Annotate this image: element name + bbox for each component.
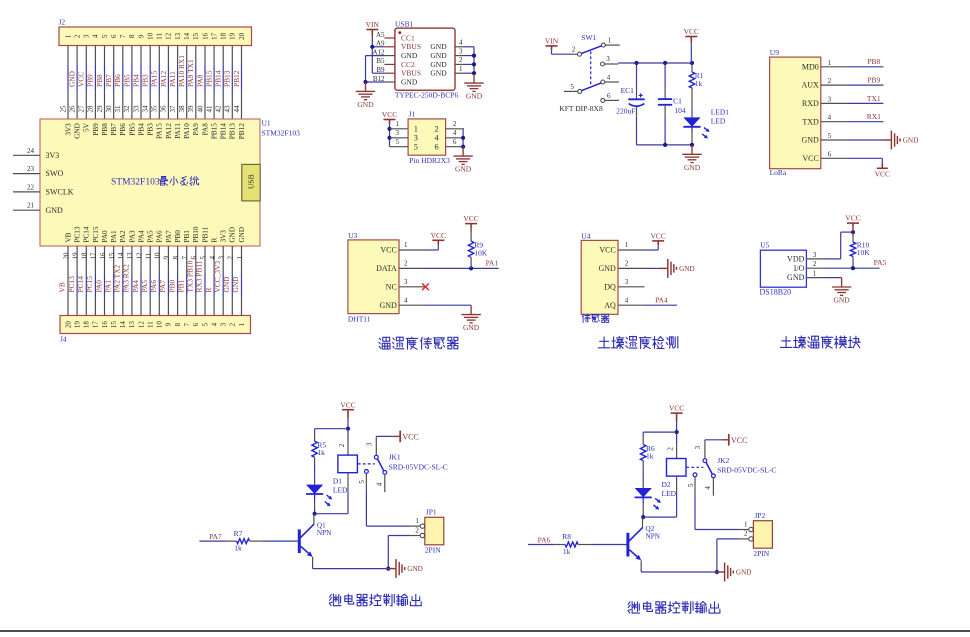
capacitor C1 104 (664, 63, 666, 90)
svg-text:2: 2 (435, 125, 439, 134)
svg-text:33: 33 (132, 105, 140, 113)
svg-text:GND: GND (430, 42, 447, 51)
svg-text:PB7: PB7 (110, 123, 118, 136)
svg-text:VCC: VCC (650, 232, 665, 241)
svg-text:GND: GND (430, 69, 447, 78)
svg-text:EC1: EC1 (621, 86, 635, 95)
power VIN (366, 30, 378, 37)
svg-text:2PIN: 2PIN (425, 546, 441, 555)
pin U3 2 DATA (399, 267, 425, 269)
junction collector node (641, 515, 645, 519)
svg-text:19: 19 (73, 321, 81, 329)
svg-text:4: 4 (607, 74, 611, 82)
svg-text:PB8: PB8 (95, 74, 104, 87)
wire J2 pin 11 to U1 pin 35 (158, 46, 160, 65)
svg-text:104: 104 (674, 106, 686, 115)
pin VBUS A9 (384, 46, 395, 48)
svg-text:5: 5 (199, 256, 207, 260)
wire U9 pin 4 net RX1 (847, 121, 884, 123)
relay contact pin 5 (693, 473, 697, 477)
pin CC2 B5 (384, 63, 395, 65)
svg-text:TXD: TXD (802, 117, 819, 126)
pin U9 1 MD0 (821, 66, 847, 68)
wire U9 VCC (847, 157, 883, 159)
svg-text:PA1: PA1 (486, 259, 499, 268)
wire VCC down (690, 43, 692, 63)
USB sub-connector box (242, 164, 260, 201)
svg-text:10: 10 (147, 32, 155, 40)
relay contact pin 3 (704, 440, 706, 459)
svg-text:VDD: VDD (787, 255, 805, 264)
svg-text:STM32F103: STM32F103 (262, 128, 301, 137)
svg-text:SWO: SWO (46, 169, 64, 178)
wire J2 pin 7 to U1 pin 31 (122, 46, 124, 65)
ground U3 (461, 305, 480, 323)
switch link dashed (590, 51, 592, 84)
pin CC1 A5 (384, 37, 395, 39)
svg-text:PA10: PA10 (183, 123, 191, 139)
svg-text:GND: GND (598, 264, 616, 273)
junction J1 pin1 (387, 127, 391, 131)
svg-text:20: 20 (238, 32, 246, 40)
svg-text:18: 18 (220, 32, 228, 40)
svg-text:DS18B20: DS18B20 (760, 287, 792, 296)
pin SW1 3 (601, 62, 605, 66)
svg-text:2: 2 (229, 322, 237, 326)
svg-text:1: 1 (608, 36, 612, 44)
svg-text:KFT DIP-8X8: KFT DIP-8X8 (559, 104, 603, 113)
wire bottom bus input section (637, 144, 693, 146)
svg-text:5: 5 (201, 322, 209, 326)
svg-text:PA15: PA15 (156, 123, 164, 139)
pin U5 1 (806, 277, 824, 279)
ground U4 sideways (659, 259, 677, 278)
junction LED bottom (690, 143, 694, 147)
wire JP2 pin2 to ground (717, 538, 739, 540)
svg-text:B5: B5 (376, 57, 385, 65)
svg-text:PA7: PA7 (158, 280, 167, 293)
power VCC relay JK1 section (342, 410, 354, 418)
sheet border line (0, 630, 970, 632)
svg-text:20: 20 (62, 252, 70, 260)
resistor R6 1k (642, 437, 644, 444)
pin U9 2 AUX (821, 84, 847, 86)
svg-text:41: 41 (205, 105, 213, 113)
wire pin5 to JP1 (365, 492, 367, 527)
svg-text:1: 1 (404, 241, 408, 249)
no connect U3 NC (422, 283, 429, 290)
svg-text:RXD: RXD (802, 99, 819, 108)
svg-text:PA6: PA6 (538, 535, 551, 544)
svg-text:PB15: PB15 (211, 123, 219, 139)
wire U1 pin 3 to J4 pin 3 (222, 246, 224, 275)
svg-text:PA0: PA0 (94, 280, 103, 293)
power VCC U3 (432, 240, 444, 244)
ground relay rail (716, 563, 734, 582)
svg-text:8: 8 (174, 322, 182, 326)
wire J2 pin 2 to U1 pin 26 (76, 46, 78, 65)
svg-text:43: 43 (224, 105, 232, 113)
junction collector node (313, 512, 317, 516)
svg-text:PB15: PB15 (204, 70, 213, 87)
svg-text:GND: GND (801, 136, 819, 145)
svg-text:GND: GND (430, 60, 447, 69)
svg-text:PB12: PB12 (238, 123, 246, 139)
svg-text:VCC: VCC (340, 400, 355, 409)
ground J1 (453, 147, 472, 165)
wire U1 pin 19 to J4 pin 19 (76, 246, 78, 275)
wire U1 pin 17 to J4 pin 17 (94, 246, 96, 275)
svg-text:PA0: PA0 (101, 230, 109, 243)
svg-text:VCC: VCC (599, 246, 615, 255)
svg-text:PB5: PB5 (122, 74, 131, 87)
svg-text:D1: D1 (333, 477, 342, 486)
relay contact pin 4 (383, 471, 387, 475)
wire U1 pin 1 to J4 pin 1 (241, 246, 243, 275)
svg-text:JP2: JP2 (754, 511, 765, 520)
junction C1 bottom (663, 143, 667, 147)
svg-text:6: 6 (453, 138, 457, 146)
wire U4 VCC (645, 249, 659, 251)
svg-text:GND: GND (401, 77, 418, 86)
wire U1 pin 15 to J4 pin 15 (113, 246, 115, 275)
svg-text:PB10: PB10 (192, 226, 200, 242)
svg-text:PA5: PA5 (140, 280, 149, 293)
svg-text:8: 8 (172, 256, 180, 260)
pin U4 4 AQ (618, 304, 645, 306)
svg-text:3: 3 (625, 278, 629, 286)
svg-text:PB3: PB3 (147, 123, 155, 136)
svg-text:3: 3 (828, 95, 832, 103)
svg-text:DATA: DATA (376, 264, 397, 273)
power VCC R9 (465, 224, 477, 228)
svg-text:U9: U9 (770, 48, 779, 57)
svg-text:15: 15 (192, 32, 200, 40)
svg-text:7: 7 (183, 322, 191, 326)
relay contact pin 3 (375, 436, 377, 455)
wire J2 pin 8 to U1 pin 32 (131, 46, 133, 65)
wire shield bus (473, 47, 475, 73)
svg-text:PB1: PB1 (183, 230, 191, 243)
wire U1 pin 9 to J4 pin 9 (167, 246, 169, 275)
svg-text:TYPEC-250D-BCP6: TYPEC-250D-BCP6 (395, 91, 459, 100)
wire U3 GND (425, 304, 471, 306)
svg-text:PB9: PB9 (867, 76, 880, 85)
svg-text:38: 38 (178, 105, 186, 113)
svg-text:VB: VB (64, 232, 72, 242)
pin U3 3 NC (399, 286, 425, 288)
pin U4 1 VCC (618, 249, 645, 251)
resistor R1 1k (691, 63, 693, 66)
svg-text:5: 5 (687, 483, 695, 487)
wire U5 GND (825, 277, 842, 279)
svg-text:DQ: DQ (604, 282, 616, 291)
svg-text:11: 11 (156, 33, 164, 40)
svg-text:PA7: PA7 (209, 532, 222, 541)
svg-text:34: 34 (142, 105, 150, 113)
ground input section (682, 145, 701, 163)
svg-text:220uF: 220uF (616, 107, 635, 116)
svg-text:17: 17 (210, 32, 218, 40)
svg-text:2: 2 (667, 447, 675, 451)
relay coil JK1 (347, 429, 349, 441)
power VIN SW1 (546, 46, 558, 50)
svg-text:C1: C1 (673, 96, 682, 105)
junction shield 2 (472, 62, 476, 66)
svg-text:5: 5 (828, 132, 832, 140)
svg-text:4: 4 (208, 256, 216, 260)
pin J1 4 (446, 137, 464, 139)
svg-text:2: 2 (453, 120, 457, 128)
svg-text:PB7: PB7 (104, 74, 113, 87)
svg-text:1k: 1k (563, 547, 571, 556)
svg-text:1: 1 (395, 120, 399, 128)
pin U5 2 (806, 267, 824, 269)
svg-text:12: 12 (165, 32, 173, 40)
svg-text:3: 3 (459, 47, 463, 55)
svg-text:15: 15 (110, 321, 118, 329)
svg-text:4: 4 (376, 482, 384, 486)
svg-text:PA4: PA4 (131, 280, 140, 293)
svg-text:PA5: PA5 (874, 258, 887, 267)
wire J2 pin 5 to U1 pin 29 (104, 46, 106, 65)
svg-text:4: 4 (92, 34, 100, 38)
pin SW1 1 (601, 43, 605, 47)
pin J1 3 (390, 137, 409, 139)
svg-text:2: 2 (625, 260, 629, 268)
pin SW1 4 (601, 80, 605, 84)
junction emitter rail (715, 570, 719, 574)
wire U1 pin 5 to J4 pin 5 (204, 246, 206, 275)
svg-text:16: 16 (201, 32, 209, 40)
svg-text:U5: U5 (760, 240, 769, 249)
wire U1 pin 13 to J4 pin 13 (131, 246, 133, 275)
svg-text:LED: LED (333, 486, 348, 495)
svg-text:PA15: PA15 (150, 71, 159, 87)
junction shield 3 (472, 54, 476, 58)
wire J2 pin 12 to U1 pin 36 (167, 46, 169, 65)
svg-text:GND: GND (401, 51, 418, 60)
svg-text:VCC: VCC (669, 404, 684, 413)
ground USB1 left (356, 82, 375, 100)
svg-text:6: 6 (192, 322, 200, 326)
wire right bus J1 (462, 129, 464, 147)
wire U1 pin 21 GND (13, 209, 40, 211)
svg-text:GND: GND (222, 276, 231, 293)
relay driver section 1 (199, 400, 447, 606)
svg-text:NPN: NPN (646, 533, 661, 541)
svg-text:VBUS: VBUS (401, 42, 421, 51)
svg-text:GND: GND (455, 165, 472, 174)
svg-text:JK2: JK2 (717, 456, 729, 465)
pin U9 4 TXD (821, 121, 847, 123)
wire J2 pin 18 to U1 pin 42 (222, 46, 224, 65)
svg-text:PA7: PA7 (165, 230, 173, 243)
power VCC relay JK2 section (671, 413, 683, 421)
wire U5 VDD to VCC (825, 258, 841, 260)
svg-text:2: 2 (459, 56, 463, 64)
svg-text:28: 28 (87, 105, 95, 113)
wire U1 pin 2 to J4 pin 2 (231, 246, 233, 275)
svg-text:7: 7 (119, 34, 127, 38)
svg-text:3V3: 3V3 (64, 123, 72, 136)
svg-text:J2: J2 (59, 18, 66, 27)
svg-text:40: 40 (196, 105, 204, 113)
svg-text:5V: 5V (83, 122, 91, 132)
svg-text:PA1: PA1 (110, 230, 118, 243)
svg-text:9: 9 (137, 34, 145, 38)
svg-text:13: 13 (174, 32, 182, 40)
svg-text:PA11: PA11 (168, 71, 177, 87)
relay contact pin 4 (712, 474, 716, 478)
svg-text:1: 1 (414, 125, 418, 134)
svg-text:STM32F103: STM32F103 (111, 177, 160, 187)
title relay section (628, 602, 720, 614)
svg-text:NPN: NPN (317, 529, 332, 537)
wire PA7 to R7 (199, 540, 226, 542)
junction VCC node (675, 430, 679, 434)
svg-text:6: 6 (607, 92, 611, 100)
svg-text:PB6: PB6 (119, 123, 127, 136)
power VCC U9 (877, 164, 888, 169)
wire J2 pin 16 to U1 pin 40 (204, 46, 206, 65)
svg-text:VBUS: VBUS (401, 69, 421, 78)
svg-text:PB12: PB12 (232, 70, 241, 87)
svg-text:10: 10 (156, 321, 164, 329)
wire U1 pin 20 to J4 pin 20 (67, 246, 69, 316)
junction I/O R10 (851, 266, 855, 270)
svg-text:PB13: PB13 (229, 123, 237, 139)
wire U1 pin 7 to J4 pin 7 (186, 246, 188, 275)
LED D2 (635, 488, 652, 497)
relay driver section 2 (528, 404, 776, 614)
wire J2 pin 9 to U1 pin 33 (140, 46, 142, 65)
svg-text:18: 18 (81, 252, 89, 260)
svg-text:PA12: PA12 (165, 123, 173, 139)
svg-text:PB11: PB11 (201, 226, 209, 242)
svg-text:U3: U3 (348, 231, 357, 240)
svg-text:TX3 PB10: TX3 PB10 (186, 260, 195, 292)
svg-text:GND: GND (407, 565, 423, 573)
svg-text:GND: GND (379, 301, 397, 310)
wire J2 pin 14 to U1 pin 38 (186, 46, 188, 65)
svg-text:VCC: VCC (845, 214, 860, 223)
junction VDD VCC (851, 230, 855, 234)
junction DATA R9 (469, 266, 473, 270)
wire JP1 pin2 to ground (388, 535, 410, 537)
svg-text:12: 12 (137, 321, 145, 329)
svg-text:5: 5 (395, 138, 399, 146)
svg-text:1k: 1k (646, 452, 654, 461)
svg-text:PB4: PB4 (131, 74, 140, 87)
svg-text:18: 18 (83, 321, 91, 329)
wire U9 pin 3 net TX1 (847, 102, 884, 104)
svg-text:PB13: PB13 (223, 70, 232, 87)
svg-text:25: 25 (59, 105, 67, 113)
svg-text:GND: GND (46, 206, 64, 215)
wire U4 AQ net PA4 (645, 304, 678, 306)
power VCC U4 (652, 241, 664, 245)
svg-text:3: 3 (220, 322, 228, 326)
svg-text:27: 27 (78, 105, 86, 113)
svg-text:3: 3 (813, 251, 817, 259)
svg-text:U1: U1 (262, 118, 271, 127)
LED LED1 (683, 117, 700, 126)
junction shield 1 (472, 71, 476, 75)
svg-text:6: 6 (110, 34, 118, 38)
wire U5 I/O net PA5 (825, 267, 880, 269)
wire SW1 pin3 to VCC node (618, 62, 692, 64)
svg-text:J1: J1 (409, 110, 416, 119)
svg-text:5: 5 (570, 83, 574, 91)
svg-text:VCC: VCC (380, 246, 396, 255)
wire U1 pin 16 to J4 pin 16 (104, 246, 106, 275)
svg-text:3: 3 (404, 278, 408, 286)
svg-text:GND: GND (736, 568, 752, 576)
wire U9 GND (847, 139, 883, 141)
svg-text:SRD-05VDC-SL-C: SRD-05VDC-SL-C (389, 462, 448, 471)
svg-text:GND: GND (68, 70, 77, 87)
svg-text:2: 2 (404, 260, 408, 268)
svg-text:31: 31 (114, 105, 122, 113)
svg-text:10K: 10K (474, 248, 488, 257)
svg-text:4: 4 (828, 114, 832, 122)
svg-text:2: 2 (338, 443, 346, 447)
svg-text:3: 3 (395, 129, 399, 137)
svg-text:NC: NC (386, 282, 397, 291)
svg-text:R: R (211, 238, 219, 243)
svg-text:15: 15 (108, 252, 116, 260)
capacitor EC1 220uF (636, 63, 638, 90)
svg-text:6: 6 (828, 150, 832, 158)
svg-text:GND: GND (229, 227, 237, 243)
svg-text:1: 1 (64, 34, 72, 38)
svg-text:4: 4 (435, 133, 439, 142)
svg-text:4: 4 (459, 39, 463, 47)
wire J2 pin 10 to U1 pin 34 (149, 46, 151, 65)
svg-text:PB6: PB6 (113, 74, 122, 87)
svg-text:1: 1 (744, 520, 748, 528)
wire U1 pin 10 to J4 pin 10 (158, 246, 160, 275)
svg-text:3: 3 (606, 55, 610, 63)
svg-text:20: 20 (64, 321, 72, 329)
svg-text:PC14: PC14 (76, 276, 85, 293)
svg-text:PB8: PB8 (101, 123, 109, 136)
svg-text:R7: R7 (234, 529, 243, 538)
svg-text:14: 14 (183, 32, 191, 40)
svg-text:2: 2 (744, 530, 748, 538)
power VCC J1 (384, 120, 396, 125)
svg-text:3: 3 (365, 442, 373, 446)
MCU U1 STM32F103 minimal system (40, 119, 260, 246)
svg-text:22: 22 (27, 183, 35, 191)
wire J2 pin 19 to U1 pin 43 (231, 46, 233, 65)
wire U1 pin 22 SWCLK (13, 191, 40, 193)
svg-text:PA12: PA12 (159, 71, 168, 87)
pin U5 3 (806, 258, 824, 260)
svg-text:VCC: VCC (463, 214, 478, 223)
svg-text:R8: R8 (562, 532, 571, 541)
svg-text:PB5: PB5 (128, 123, 136, 136)
svg-text:D2: D2 (662, 480, 671, 489)
svg-text:GND: GND (231, 276, 240, 293)
pin J1 5 (390, 146, 409, 148)
junction emitter rail (386, 567, 390, 571)
svg-text:GND: GND (74, 123, 82, 139)
svg-text:SW1: SW1 (581, 33, 596, 42)
svg-text:PC15: PC15 (92, 226, 100, 242)
pin J1 6 (446, 146, 464, 148)
